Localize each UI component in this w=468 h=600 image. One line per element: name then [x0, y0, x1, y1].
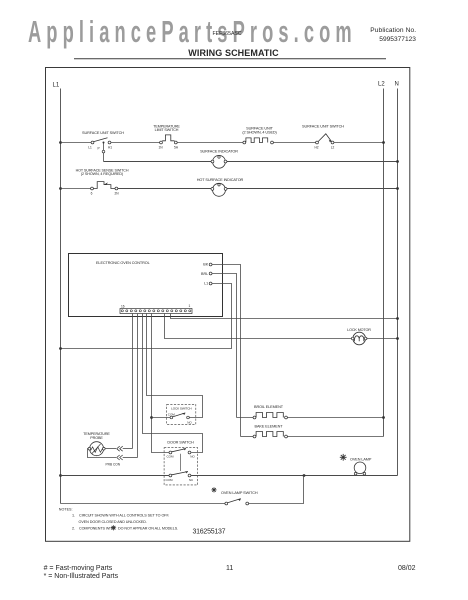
svg-text:08/02: 08/02 — [398, 565, 416, 572]
temperature probe RT1 — [83, 432, 121, 466]
svg-text:11: 11 — [226, 565, 233, 572]
svg-text:1N: 1N — [158, 145, 163, 149]
lock switch — [167, 404, 196, 424]
svg-text:COM: COM — [167, 455, 175, 459]
EOC port L1 — [204, 281, 212, 285]
schematic border frame — [46, 68, 410, 542]
svg-text:CIRCUIT SHOWN WITH ALL CONTROL: CIRCUIT SHOWN WITH ALL CONTROLS SET TO O… — [79, 514, 169, 518]
svg-text:COM: COM — [166, 478, 174, 482]
svg-text:1.: 1. — [72, 514, 75, 518]
junction dot L1 row A — [59, 141, 62, 144]
wire L1 bus — [60, 89, 62, 504]
svg-text:BAKE ELEMENT: BAKE ELEMENT — [255, 425, 284, 429]
svg-text:H2: H2 — [314, 145, 318, 149]
notes block — [59, 508, 178, 531]
svg-text:L1: L1 — [88, 145, 92, 149]
svg-text:HOT SURFACE INDICATOR: HOT SURFACE INDICATOR — [197, 178, 244, 182]
svg-text:316255137: 316255137 — [193, 529, 226, 536]
svg-text:OVEN DOOR CLOSED AND UNLOCKED.: OVEN DOOR CLOSED AND UNLOCKED. — [79, 520, 147, 524]
svg-text:5A: 5A — [174, 145, 179, 149]
svg-text:WIRING SCHEMATIC: WIRING SCHEMATIC — [188, 48, 279, 58]
surface unit element — [242, 126, 277, 144]
svg-text:AppliancePartsPros.com: AppliancePartsPros.com — [28, 15, 357, 49]
wire row A: L1 to surface unit switch — [61, 142, 92, 144]
junction dot L1 feed at L1 bus — [59, 347, 62, 350]
svg-text:PROBE: PROBE — [90, 436, 103, 440]
junction dot N bus y318 — [396, 317, 399, 320]
svg-text:2N: 2N — [114, 191, 119, 195]
wire row A: switch to temperature limit switch — [111, 142, 160, 144]
wire row A: switch to L2 bus — [334, 142, 384, 144]
svg-text:OVEN LAMP: OVEN LAMP — [350, 457, 372, 461]
wire row A: surface unit to right switch — [273, 142, 315, 144]
junction dot L1 lamp row — [59, 474, 62, 477]
wire pin to N bus — [171, 314, 398, 319]
wire BRL to broil element feed — [212, 274, 237, 418]
svg-text:1: 1 — [189, 304, 191, 308]
svg-text:COM: COM — [168, 412, 176, 416]
svg-text:ELECTRONIC OVEN CONTROL: ELECTRONIC OVEN CONTROL — [96, 261, 150, 265]
junction dot row A at L2 — [382, 141, 385, 144]
svg-text:BRL: BRL — [201, 272, 208, 276]
wire N bus — [397, 89, 399, 476]
junction dot row C at N — [396, 187, 399, 190]
svg-text:# = Fast-moving Parts: # = Fast-moving Parts — [44, 565, 113, 572]
title WIRING SCHEMATIC — [74, 48, 386, 59]
svg-text:2.: 2. — [72, 526, 75, 530]
wire lock COM tap — [152, 417, 171, 419]
EOC port BK — [203, 263, 212, 267]
junction dot row B at N — [396, 160, 399, 163]
junction dot lock switch COM tap — [150, 416, 153, 419]
wire pin to lock COM / door COM — [152, 314, 169, 453]
svg-text:* = Non-Illustrated Parts: * = Non-Illustrated Parts — [44, 573, 119, 580]
wire pin to door switch NO — [143, 314, 203, 453]
oven lamp switch — [211, 487, 257, 505]
svg-text:H1: H1 — [108, 145, 112, 149]
oven lamp — [340, 454, 372, 475]
svg-text:SURFACE INDICATOR: SURFACE INDICATOR — [200, 149, 238, 153]
svg-text:L2: L2 — [331, 145, 335, 149]
svg-text:5995377123: 5995377123 — [379, 36, 416, 43]
wire P branch down to indicator row — [102, 142, 105, 162]
svg-text:NO: NO — [187, 420, 192, 424]
svg-text:LOCK SWITCH: LOCK SWITCH — [171, 407, 191, 411]
svg-text:LOCK MOTOR: LOCK MOTOR — [347, 328, 371, 332]
wire L2 bus — [383, 89, 385, 437]
surface unit switch (right) — [302, 124, 344, 149]
wire pin to lock motor — [165, 314, 355, 339]
wire row C: switch to N bus — [118, 188, 398, 190]
wire lock motor to N bus — [366, 338, 397, 340]
wire row C: L1 to hot surface sense switch — [61, 188, 91, 190]
svg-text:DOOR SWITCH: DOOR SWITCH — [167, 440, 194, 444]
svg-text:6: 6 — [91, 191, 93, 195]
surface indicator lamp — [200, 149, 238, 168]
wire lamp row: door switch to N bus — [191, 475, 398, 477]
svg-text:BK: BK — [203, 263, 208, 267]
hot surface sense switch — [76, 168, 129, 195]
wire lamp row: L1 to door switch — [61, 475, 170, 477]
watermark — [28, 15, 357, 49]
svg-text:SURFACE UNIT SWITCH: SURFACE UNIT SWITCH — [82, 131, 124, 135]
temperature limit switch — [153, 124, 180, 149]
EOC port BRL — [201, 272, 212, 276]
wire oven lamp switch branch — [61, 476, 304, 504]
EOC pin connector strip — [120, 309, 192, 314]
wire row B: surface indicator row — [104, 161, 398, 163]
broil element — [237, 405, 384, 419]
door switch — [164, 440, 198, 485]
svg-text:LIMIT SWITCH: LIMIT SWITCH — [155, 128, 179, 132]
svg-text:OVEN LAMP SWITCH: OVEN LAMP SWITCH — [221, 491, 258, 495]
svg-text:(2 SHOWN, 4 REQUIRED): (2 SHOWN, 4 REQUIRED) — [81, 172, 123, 176]
svg-text:NOTES:: NOTES: — [59, 508, 73, 512]
svg-text:L2: L2 — [378, 82, 385, 88]
svg-text:FEF365ASC: FEF365ASC — [213, 31, 242, 37]
svg-text:NO: NO — [190, 455, 195, 459]
svg-text:N: N — [395, 82, 399, 88]
hot surface indicator lamp — [197, 178, 244, 196]
wire L1 feed to EOC — [61, 284, 232, 349]
wire pin to probe bottom — [137, 314, 139, 458]
junction dot broil at L2 — [382, 416, 385, 419]
svg-text:BROIL ELEMENT: BROIL ELEMENT — [254, 405, 284, 409]
svg-text:NC: NC — [189, 478, 194, 482]
wire probe top to connector — [105, 446, 132, 451]
svg-text:(2 SHOWN, 4 USED): (2 SHOWN, 4 USED) — [242, 131, 277, 135]
publication number label — [370, 27, 416, 43]
junction dot lamp branch — [303, 474, 306, 477]
svg-text:L1: L1 — [204, 281, 208, 285]
lock motor M — [347, 328, 371, 345]
svg-text:L1: L1 — [53, 83, 60, 89]
junction dot N bus y338 — [396, 337, 399, 340]
svg-text:PRB CON: PRB CON — [106, 462, 121, 466]
footer fast-moving parts legend — [44, 565, 119, 580]
wire pin to lock switch NO — [147, 314, 203, 418]
surface unit switch (left) — [82, 131, 124, 151]
svg-text:16: 16 — [121, 304, 125, 308]
electronic oven control U1 — [69, 254, 223, 317]
wire BK to bake element feed — [212, 265, 241, 437]
junction dot L1 row C — [59, 187, 62, 190]
bake element — [241, 425, 384, 438]
svg-text:DO NOT APPEAR ON ALL MODELS.: DO NOT APPEAR ON ALL MODELS. — [118, 526, 178, 530]
wire probe bottom to connector — [88, 449, 138, 461]
svg-text:Publication No.: Publication No. — [370, 27, 416, 34]
svg-text:SURFACE UNIT SWITCH: SURFACE UNIT SWITCH — [302, 124, 344, 128]
svg-text:P: P — [98, 147, 100, 151]
wire pin to probe top — [132, 314, 134, 449]
wire row A: limit switch to surface unit — [177, 142, 243, 144]
svg-text:COMPONENTS WITH: COMPONENTS WITH — [79, 526, 116, 530]
